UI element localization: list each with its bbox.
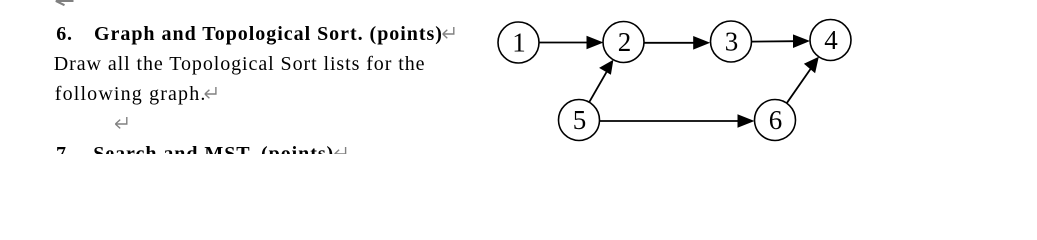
wire: edge 3 -> 4 xyxy=(752,40,795,42)
node 3 xyxy=(711,21,752,62)
node 2 xyxy=(603,22,644,63)
svg-text:4: 4 xyxy=(824,25,838,55)
arrowhead of edge 3 -> 4 xyxy=(793,34,810,48)
arrowhead of edge 1 -> 2 xyxy=(587,36,604,50)
node 4 xyxy=(810,20,851,61)
svg-text:5: 5 xyxy=(573,105,587,135)
paragraph return mark after heading xyxy=(443,27,454,38)
arrowhead of edge 5 -> 6 xyxy=(738,114,755,128)
node 5 xyxy=(559,100,600,141)
node 1 xyxy=(498,22,539,63)
wire: edge 2 -> 3 xyxy=(644,42,695,44)
arrowhead of edge 5 -> 2 xyxy=(599,60,613,75)
paragraph return mark after "7." heading (cut off at bottom) xyxy=(335,147,346,158)
indented empty-paragraph return mark xyxy=(115,117,126,128)
svg-text:Graph and Topological Sort. (p: Graph and Topological Sort. (points) xyxy=(94,23,443,45)
paragraph return mark (cut off at top, previous line) xyxy=(56,1,74,5)
wire: edge 5 -> 2 xyxy=(589,72,606,102)
wire: edge 5 -> 6 xyxy=(600,120,740,122)
svg-text:2: 2 xyxy=(618,27,632,57)
svg-text:following graph.: following graph. xyxy=(55,83,207,105)
svg-text:3: 3 xyxy=(725,26,739,56)
svg-text:6.: 6. xyxy=(56,23,73,45)
wire: edge 6 -> 4 xyxy=(787,69,811,103)
svg-text:7.: 7. xyxy=(56,143,73,154)
node 6 xyxy=(755,100,796,141)
arrowhead of edge 6 -> 4 xyxy=(804,57,819,74)
wire: edge 1 -> 2 xyxy=(539,42,588,44)
svg-text:6: 6 xyxy=(769,105,783,135)
svg-text:Search and MST. (points): Search and MST. (points) xyxy=(93,143,334,154)
arrowhead of edge 2 -> 3 xyxy=(693,36,710,50)
svg-text:1: 1 xyxy=(512,27,526,57)
svg-text:Draw all the Topological Sort: Draw all the Topological Sort lists for … xyxy=(54,53,426,75)
paragraph return mark after "following graph." xyxy=(205,87,216,98)
